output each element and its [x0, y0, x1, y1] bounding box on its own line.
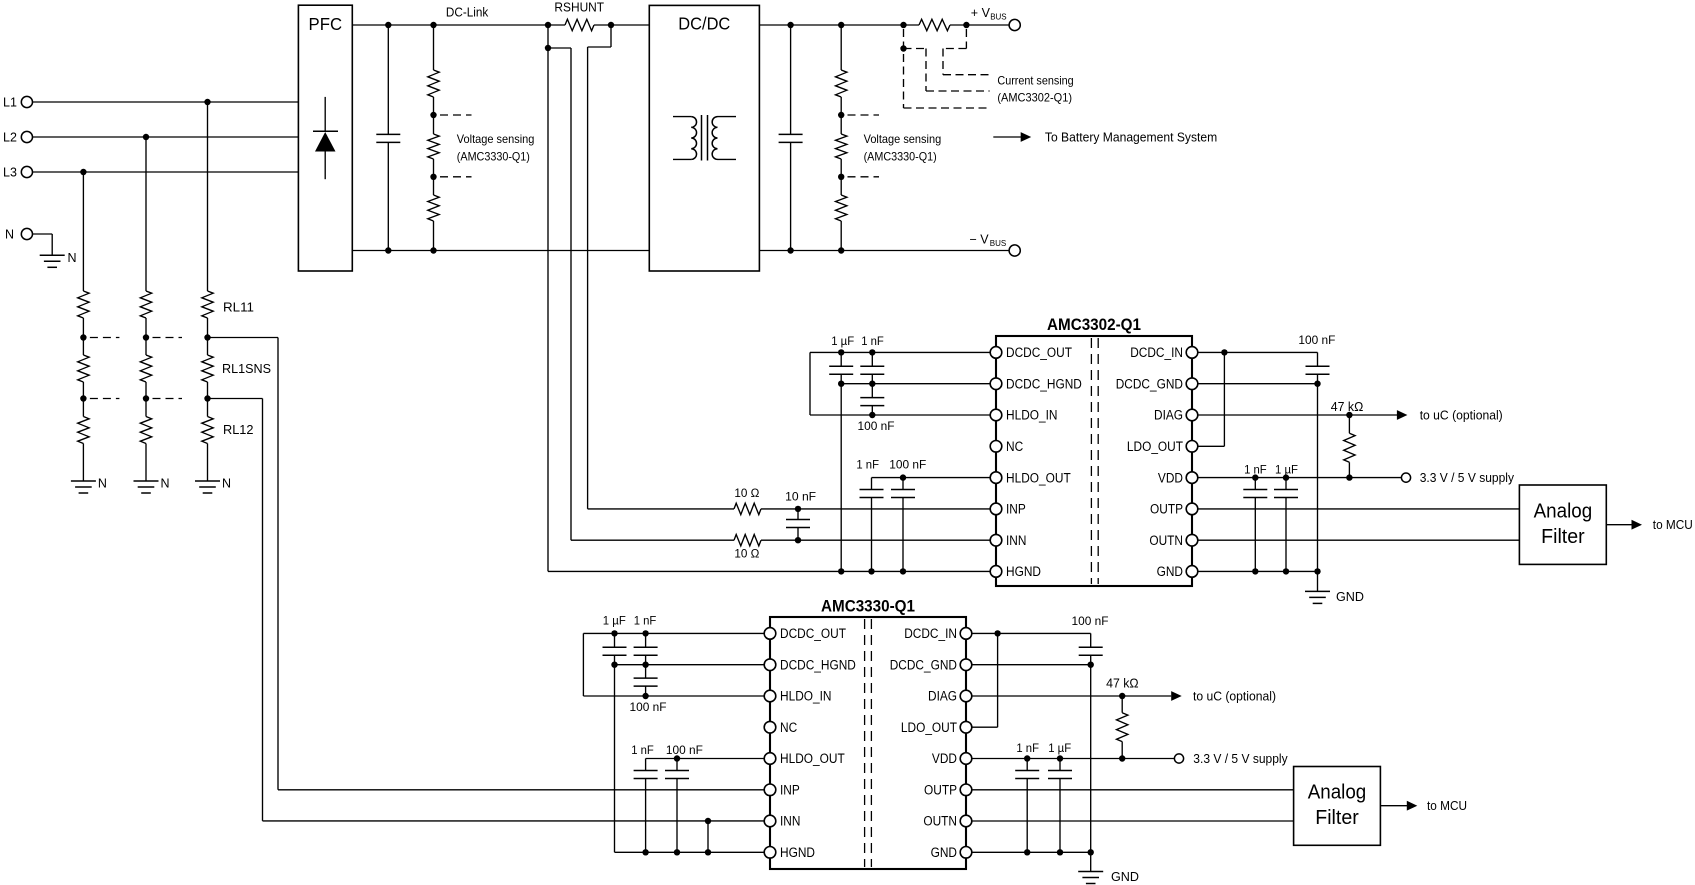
svg-text:DIAG: DIAG — [1154, 408, 1183, 423]
svg-text:100 nF: 100 nF — [889, 458, 926, 472]
node col3 junction B — [204, 395, 210, 401]
node C17 top — [1057, 755, 1063, 761]
wire L2 tap down — [145, 137, 147, 291]
wire DCDC_GND down to GND (AMC3330) — [1090, 665, 1092, 853]
wire VBUS divider 1 — [840, 97, 842, 115]
capacitor C7 100nF (AMC3302 DCDC_IN) — [1317, 352, 1319, 366]
svg-text:VDD: VDD — [1158, 470, 1183, 485]
dashed stub VBUS A — [848, 114, 880, 116]
arrow to MCU (AMC3302) — [1606, 524, 1632, 526]
node DIAG-47k — [1346, 412, 1352, 418]
dashed stub col2 B — [153, 398, 183, 400]
svg-text:3.3 V / 5 V supply: 3.3 V / 5 V supply — [1420, 471, 1515, 485]
wire col2 upper — [145, 318, 147, 338]
svg-text:HLDO_OUT: HLDO_OUT — [780, 751, 845, 766]
svg-text:PFC: PFC — [309, 14, 343, 34]
pin AMC3302 NC — [990, 441, 1002, 453]
node C3 bottom — [869, 412, 875, 418]
wire VBUS divider to bottom rail — [840, 221, 842, 251]
svg-text:L3: L3 — [3, 165, 17, 179]
wire AMC3302 OUTN — [1192, 539, 1519, 541]
dashed stub col2 A — [153, 337, 183, 339]
capacitor C5 100nF (AMC3302 HLDO_OUT) — [902, 478, 904, 490]
node C5 top — [900, 474, 906, 480]
node C1 top — [838, 349, 844, 355]
PFC block — [298, 5, 352, 271]
pin AMC3330 GND — [960, 847, 972, 859]
wire DCDC_IN to LDO_OUT — [1223, 352, 1225, 446]
wire N to ground — [33, 233, 53, 235]
node C2 bottom — [869, 381, 875, 387]
svg-text:GND: GND — [931, 845, 958, 860]
capacitor C4 1nF (AMC3302 HLDO_OUT) — [871, 478, 873, 490]
wire sense INP branch — [610, 25, 612, 47]
node C9 bottom — [1283, 568, 1289, 574]
svg-text:1 nF: 1 nF — [856, 458, 879, 472]
op-amp U1 AMC3302-Q1 box — [996, 336, 1192, 586]
capacitor C6 10nF (input filter) — [797, 509, 799, 520]
capacitor C11 1nF (AMC3330) — [645, 633, 647, 647]
node VBUS divider A — [838, 112, 844, 118]
arrow To Battery Management System — [993, 136, 1021, 138]
wire AMC3302 DCDC_GND — [1192, 383, 1318, 385]
svg-text:1 µF: 1 µF — [1048, 741, 1071, 755]
dashed stub col1 B — [90, 398, 120, 400]
ground N (input) — [40, 254, 65, 256]
node VBUS divider top — [838, 22, 844, 28]
wire AMC3302 DCDC_HGND to HGND — [840, 384, 842, 572]
resistor R4 47k (AMC3330) — [1121, 696, 1123, 713]
wire AMC3330 VDD — [966, 758, 1174, 760]
node RSHUNT sense tap — [545, 45, 551, 51]
svg-text:to uC (optional): to uC (optional) — [1193, 689, 1276, 703]
node C11 bottom — [642, 662, 648, 668]
wire VBUS divider 2 — [840, 159, 842, 177]
svg-text:DCDC_IN: DCDC_IN — [904, 626, 957, 641]
wire AMC3330 HGND — [615, 851, 771, 853]
svg-text:RSHUNT: RSHUNT — [554, 1, 604, 15]
resistor divider DC-link middle — [433, 115, 435, 134]
wire AMC3302 VDD — [1192, 477, 1401, 479]
node L2 tap — [143, 134, 149, 140]
node col2 junction A — [143, 334, 149, 340]
node DC-link divider B — [430, 174, 436, 180]
wire AMC3330 DIAG arrow — [966, 695, 1171, 697]
svg-text:LDO_OUT: LDO_OUT — [901, 720, 957, 735]
svg-text:1 nF: 1 nF — [1244, 463, 1267, 477]
pin AMC3330 HGND — [764, 847, 776, 859]
svg-text:Analog: Analog — [1308, 782, 1367, 804]
pin AMC3330 INN — [764, 815, 776, 827]
svg-text:INP: INP — [780, 783, 800, 798]
svg-text:to MCU: to MCU — [1427, 799, 1467, 813]
node C2 top — [869, 349, 875, 355]
wire AMC3330 GND — [966, 851, 1091, 853]
dashed current sense path 1 — [903, 29, 905, 108]
pin AMC3330 DCDC_IN — [960, 628, 972, 640]
resistor R2 10ohm (INN) — [571, 539, 734, 541]
terminal -VBUS — [1009, 245, 1020, 256]
capacitor C12 100nF (AMC3330) — [645, 665, 647, 678]
wire RSHUNT to DC/DC — [594, 24, 649, 26]
svg-text:LDO_OUT: LDO_OUT — [1127, 439, 1183, 454]
svg-text:100 nF: 100 nF — [666, 743, 703, 757]
wire RL1SNS-RL12 junction to AMC3330 INN — [208, 398, 263, 400]
ground N col3 — [195, 480, 220, 482]
wire AMC3330 DCDC_HGND to HGND — [614, 665, 616, 853]
svg-text:N: N — [5, 227, 14, 241]
ground N col2 — [134, 480, 159, 482]
wire L2 to PFC — [33, 136, 299, 138]
node RSHUNT right — [608, 22, 614, 28]
svg-text:OUTN: OUTN — [923, 814, 957, 829]
dashed stub DC-link B — [440, 176, 472, 178]
wire col1 to ground — [82, 444, 84, 482]
svg-text:(AMC3330-Q1): (AMC3330-Q1) — [457, 149, 530, 163]
node RSHUNT left — [545, 22, 551, 28]
pin AMC3302 DCDC_HGND — [990, 378, 1002, 390]
pin AMC3302 INN — [990, 534, 1002, 546]
pin AMC3302 DIAG — [1186, 409, 1198, 421]
pin AMC3302 HLDO_IN — [990, 409, 1002, 421]
isolation barrier (AMC3302) — [1090, 338, 1092, 584]
svg-text:Voltage sensing: Voltage sensing — [864, 132, 942, 146]
isolation barrier (AMC3330) — [864, 619, 866, 867]
node L3 tap — [80, 169, 86, 175]
resistor divider column 2 upper resistor — [140, 291, 151, 318]
svg-text:DC/DC: DC/DC — [678, 14, 730, 34]
wire col1 upper — [82, 318, 84, 338]
svg-text:DIAG: DIAG — [928, 689, 957, 704]
resistor divider VBUS middle — [840, 115, 842, 134]
node C16 top — [1024, 755, 1030, 761]
node GND junction right — [1314, 568, 1320, 574]
dashed stub VBUS B — [848, 176, 880, 178]
svg-text:RL11: RL11 — [223, 301, 254, 315]
wire AMC3330 OUTN — [966, 820, 1294, 822]
svg-text:1 µF: 1 µF — [603, 614, 626, 628]
capacitor C3 100nF (AMC3302) — [871, 384, 873, 398]
node DCDC_IN junction (AMC3330) — [994, 630, 1000, 636]
svg-text:BUS: BUS — [990, 13, 1006, 22]
wire DCDC_IN to LDO_OUT (AMC3330) — [997, 633, 999, 727]
node VBUS divider bottom — [838, 247, 844, 253]
svg-text:L2: L2 — [3, 130, 17, 144]
svg-text:47 kΩ: 47 kΩ — [1106, 677, 1139, 691]
svg-text:HGND: HGND — [780, 845, 815, 860]
node C10 bottom — [611, 662, 617, 668]
svg-text:1 µF: 1 µF — [1275, 463, 1298, 477]
svg-text:10 nF: 10 nF — [785, 490, 816, 504]
node DC-link cap top — [385, 22, 391, 28]
Analog Filter block (AMC3330) — [1294, 767, 1381, 846]
dashed stub DC-link A — [440, 114, 472, 116]
wire col3 to ground — [207, 444, 209, 482]
terminal N — [21, 228, 32, 239]
node VBUS divider B — [838, 174, 844, 180]
svg-text:Filter: Filter — [1541, 526, 1585, 548]
pin AMC3330 DCDC_GND — [960, 659, 972, 671]
pin AMC3302 VDD — [1186, 472, 1198, 484]
svg-text:N: N — [161, 477, 170, 491]
svg-text:1 nF: 1 nF — [631, 743, 654, 757]
pin AMC3302 LDO_OUT — [1186, 441, 1198, 453]
resistor divider column 2 middle resistor — [145, 338, 147, 356]
svg-text:VDD: VDD — [932, 751, 957, 766]
capacitor C2 1nF (AMC3302) — [871, 352, 873, 366]
svg-text:DCDC_HGND: DCDC_HGND — [1006, 376, 1082, 391]
node C8 top — [1252, 474, 1258, 480]
svg-text:HLDO_IN: HLDO_IN — [780, 689, 832, 704]
capacitor C1 1uF (AMC3302) — [840, 352, 842, 366]
node DIAG-47k (AMC3330) — [1119, 693, 1125, 699]
wire -VBUS rail — [759, 250, 1009, 252]
node DCDC_GND cap (AMC3330) — [1088, 662, 1094, 668]
pin AMC3302 DCDC_IN — [1186, 347, 1198, 359]
wire RSHUNT left node down (AMC3302 HGND) — [547, 25, 549, 571]
node C1 bottom — [838, 381, 844, 387]
DC/DC block — [649, 5, 759, 271]
node DC-link divider A — [430, 112, 436, 118]
wire AMC3330 DCDC_GND — [966, 664, 1091, 666]
pin AMC3302 OUTN — [1186, 534, 1198, 546]
terminal 3.3V supply (AMC3302) — [1401, 473, 1410, 482]
wire AMC3302 DCDC_IN — [1192, 351, 1318, 353]
wire DC-link divider 2 — [433, 159, 435, 177]
node shunt +VBUS left — [900, 22, 906, 28]
wire AMC3302 DCDC_OUT loop — [810, 351, 996, 353]
svg-text:DCDC_OUT: DCDC_OUT — [780, 626, 846, 641]
node C8 bottom — [1252, 568, 1258, 574]
node output cap top — [787, 22, 793, 28]
svg-text:Analog: Analog — [1534, 501, 1593, 523]
pin AMC3330 OUTN — [960, 815, 972, 827]
node C11 top — [642, 630, 648, 636]
wire AMC3330 DCDC_OUT loop — [583, 632, 770, 634]
pin AMC3302 HLDO_OUT — [990, 472, 1002, 484]
wire AMC3302 DCDC_HGND — [841, 383, 996, 385]
svg-text:Filter: Filter — [1315, 807, 1359, 829]
node HGND junction 1 — [838, 568, 844, 574]
svg-text:N: N — [68, 251, 77, 265]
resistor divider column 1 upper resistor — [78, 291, 89, 318]
svg-text:BUS: BUS — [990, 239, 1006, 248]
svg-text:1 nF: 1 nF — [634, 614, 657, 628]
pin AMC3330 LDO_OUT — [960, 721, 972, 733]
wire AMC3330 DCDC_IN — [966, 632, 1091, 634]
svg-text:GND: GND — [1111, 870, 1139, 884]
svg-text:GND: GND — [1336, 590, 1364, 604]
svg-text:3.3 V / 5 V supply: 3.3 V / 5 V supply — [1193, 752, 1288, 766]
pin AMC3330 INP — [764, 784, 776, 796]
svg-text:100 nF: 100 nF — [1072, 614, 1109, 628]
svg-text:L1: L1 — [3, 95, 17, 109]
pin AMC3330 HLDO_OUT — [764, 753, 776, 765]
svg-text:DCDC_GND: DCDC_GND — [1116, 376, 1184, 391]
capacitor C10 1uF (AMC3330) — [614, 633, 616, 647]
resistor RSHUNT — [565, 19, 594, 30]
terminal 3.3V supply (AMC3330) — [1174, 754, 1183, 763]
wire AMC3330 HLDO_OUT — [646, 758, 770, 760]
svg-text:INP: INP — [1006, 502, 1026, 517]
svg-text:INN: INN — [1006, 533, 1026, 548]
svg-text:To Battery Management System: To Battery Management System — [1045, 130, 1217, 144]
svg-text:N: N — [98, 477, 107, 491]
svg-text:+ V: + V — [971, 6, 991, 20]
pin AMC3330 NC — [764, 721, 776, 733]
node GND junction (AMC3330) — [1088, 849, 1094, 855]
pin AMC3330 DCDC_HGND — [764, 659, 776, 671]
svg-text:OUTP: OUTP — [924, 783, 957, 798]
resistor divider VBUS lower — [840, 177, 842, 195]
node C16 bottom — [1024, 849, 1030, 855]
pin AMC3302 INP — [990, 503, 1002, 515]
wire AMC3302 DIAG arrow — [1192, 414, 1397, 416]
node DC-link divider bottom — [430, 247, 436, 253]
svg-text:NC: NC — [780, 720, 797, 735]
terminal L2 — [21, 131, 32, 142]
resistor shunt +VBUS — [919, 19, 950, 30]
node C6 top — [795, 506, 801, 512]
capacitor C17 1uF (AMC3330 VDD) — [1059, 759, 1061, 771]
terminal L3 — [21, 166, 32, 177]
node DC-link cap bottom — [385, 247, 391, 253]
node col1 junction A — [80, 334, 86, 340]
pin AMC3330 OUTP — [960, 784, 972, 796]
svg-text:HLDO_OUT: HLDO_OUT — [1006, 470, 1071, 485]
svg-text:AMC3302-Q1: AMC3302-Q1 — [1047, 315, 1141, 334]
svg-text:DCDC_GND: DCDC_GND — [890, 657, 958, 672]
svg-text:DC-Link: DC-Link — [446, 6, 489, 20]
svg-text:OUTN: OUTN — [1149, 533, 1183, 548]
ground GND (AMC3330) — [1078, 871, 1103, 873]
resistor divider DC-link lower — [433, 177, 435, 195]
transformer (DC/DC) — [673, 116, 691, 118]
resistor divider column 3 upper resistor RL11 — [202, 291, 213, 318]
svg-text:GND: GND — [1157, 564, 1184, 579]
pin AMC3302 HGND — [990, 566, 1002, 578]
wire INN tie to HGND — [707, 821, 709, 852]
ground GND (AMC3302) — [1305, 590, 1330, 592]
capacitor C14 100nF (AMC3330 HLDO_OUT) — [676, 759, 678, 771]
node DCDC_GND cap — [1314, 381, 1320, 387]
svg-text:N: N — [222, 477, 231, 491]
wire to +VBUS terminal — [950, 24, 1009, 26]
arrow to MCU (AMC3330) — [1380, 805, 1407, 807]
wire top rail PFC to RSHUNT — [352, 24, 565, 26]
svg-text:AMC3330-Q1: AMC3330-Q1 — [821, 596, 915, 615]
pin AMC3302 OUTP — [1186, 503, 1198, 515]
wire L1 to PFC — [33, 101, 299, 103]
wire RL11-RL1SNS junction to AMC3330 INP — [208, 337, 279, 339]
resistor divider column 1 middle resistor — [82, 338, 84, 356]
svg-text:1 nF: 1 nF — [861, 334, 884, 348]
svg-text:RL1SNS: RL1SNS — [222, 362, 271, 376]
svg-text:10 Ω: 10 Ω — [734, 547, 759, 561]
wire bottom rail PFC to DC/DC — [352, 250, 649, 252]
node C5 bottom — [900, 568, 906, 574]
svg-text:to MCU: to MCU — [1653, 518, 1693, 532]
wire L3 tap down — [82, 172, 84, 291]
capacitor C13 1nF (AMC3330 HLDO_OUT) — [645, 759, 647, 771]
svg-text:OUTP: OUTP — [1150, 502, 1183, 517]
node shunt +VBUS right — [963, 22, 969, 28]
resistor divider column 1 lower resistor — [82, 399, 84, 417]
terminal +VBUS — [1009, 19, 1020, 30]
pin AMC3330 DCDC_OUT — [764, 628, 776, 640]
svg-text:to uC (optional): to uC (optional) — [1420, 408, 1503, 422]
node HGND dots (AMC3330) — [642, 849, 648, 855]
svg-text:RL12: RL12 — [223, 423, 254, 437]
svg-text:DCDC_HGND: DCDC_HGND — [780, 657, 856, 672]
svg-text:Current sensing: Current sensing — [997, 74, 1073, 88]
svg-text:10 Ω: 10 Ω — [734, 486, 759, 500]
pin AMC3302 DCDC_OUT — [990, 347, 1002, 359]
wire DC-link divider to bottom rail — [433, 221, 435, 251]
resistor R1 10ohm (INP) — [588, 508, 734, 510]
Analog Filter block (AMC3302) — [1519, 485, 1606, 564]
svg-text:1 nF: 1 nF — [1016, 741, 1039, 755]
node C6 bottom — [795, 537, 801, 543]
resistor R3 47k (AMC3302) — [1348, 415, 1350, 433]
svg-text:100 nF: 100 nF — [1298, 333, 1335, 347]
svg-text:100 nF: 100 nF — [630, 700, 667, 714]
wire DC-link divider — [433, 97, 435, 115]
node INN tie — [705, 818, 711, 824]
node 47k-VDD (AMC3330) — [1119, 755, 1125, 761]
dashed current sense path 3 — [965, 29, 967, 49]
ground N col1 — [71, 480, 96, 482]
wire +VBUS rail — [759, 24, 919, 26]
svg-text:1 µF: 1 µF — [831, 334, 854, 348]
wire AMC3302 GND — [1192, 570, 1318, 572]
svg-text:100 nF: 100 nF — [858, 419, 895, 433]
node col3 junction A — [204, 334, 210, 340]
svg-text:NC: NC — [1006, 439, 1023, 454]
node col1 junction B — [80, 395, 86, 401]
node C9 top — [1283, 474, 1289, 480]
svg-text:INN: INN — [780, 814, 800, 829]
svg-text:HGND: HGND — [1006, 564, 1041, 579]
wire GND stem (AMC3302) — [1317, 571, 1319, 591]
wire AMC3330 OUTP — [966, 789, 1294, 791]
node L1 tap — [204, 99, 210, 105]
capacitor DC/DC output — [790, 25, 792, 134]
node C14 top — [674, 755, 680, 761]
op-amp U2 AMC3330-Q1 box — [770, 617, 966, 869]
pin AMC3330 VDD — [960, 753, 972, 765]
wire L3 to PFC — [33, 171, 299, 173]
diode (PFC) — [324, 97, 326, 132]
wire sense INN branch — [548, 47, 571, 49]
svg-text:DCDC_IN: DCDC_IN — [1130, 345, 1183, 360]
svg-text:− V: − V — [970, 232, 990, 246]
capacitor C8 1nF (AMC3302 VDD) — [1254, 478, 1256, 490]
capacitor DC-link — [387, 25, 389, 134]
wire AMC3302 OUTP — [1192, 508, 1519, 510]
node current sense tap — [900, 45, 906, 51]
dashed current sense path 2 — [904, 48, 927, 50]
pin AMC3330 HLDO_IN — [764, 690, 776, 702]
capacitor C9 1uF (AMC3302 VDD) — [1285, 478, 1287, 490]
resistor divider VBUS upper — [840, 25, 842, 70]
resistor divider DC-link upper — [433, 25, 435, 70]
wire GND stem (AMC3330) — [1090, 852, 1092, 871]
svg-text:DCDC_OUT: DCDC_OUT — [1006, 345, 1072, 360]
resistor divider column 2 lower resistor — [145, 399, 147, 417]
pin AMC3302 GND — [1186, 566, 1198, 578]
resistor divider column 3 middle resistor RL1SNS — [207, 338, 209, 356]
